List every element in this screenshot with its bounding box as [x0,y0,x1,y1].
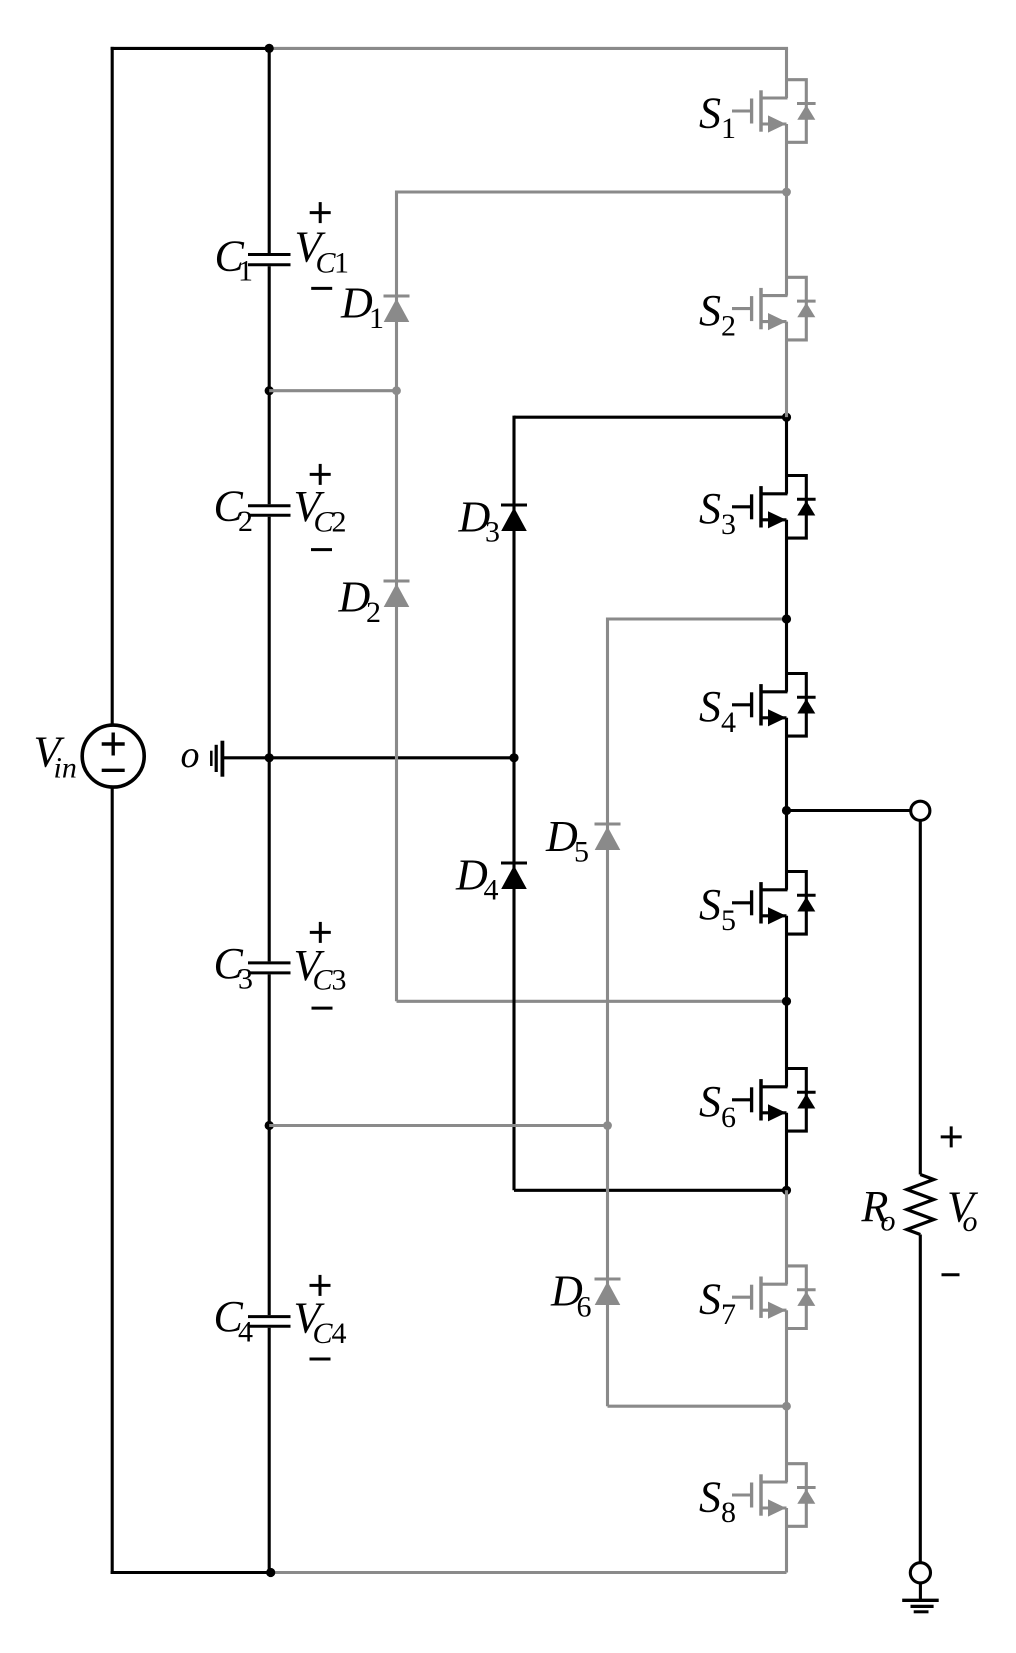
svg-text:S: S [699,1275,721,1324]
wire D1D2 branch to S5S6 node [397,1000,787,1003]
capacitor C3 [248,963,291,973]
svg-text:1: 1 [238,255,253,288]
transistor S2 [732,277,816,340]
node bus-D1D2 junction [265,386,274,395]
svg-text:2: 2 [332,506,347,539]
svg-text:S: S [699,484,721,533]
wire switch rail seg3 [785,322,788,418]
wire D3D4 branch vertical [512,416,515,1191]
wire D5D6 branch to S7S8 node [608,1405,787,1408]
label D5 [545,812,589,869]
wire switch rail seg9 [785,1190,788,1284]
svg-text:C: C [313,964,334,997]
node S1S2 junction [782,188,791,197]
svg-text:C: C [313,1317,334,1350]
wire switch rail seg5 [785,520,788,692]
wire capacitor bus seg3 [268,517,271,962]
svg-text:o: o [963,1205,978,1238]
label V_o minus [942,1273,960,1276]
wire switch rail seg11 [785,1508,788,1573]
label D4 [455,851,499,907]
capacitor C1 [248,255,291,265]
label C2 [214,482,254,539]
node o reference symbol [211,741,222,777]
label S2 [699,286,736,343]
svg-text:S: S [699,88,721,137]
label V_C2 [294,482,347,539]
label R_o [861,1182,896,1238]
diode D6 [595,1279,621,1305]
svg-text:1: 1 [334,247,349,280]
wire S2S3-node to D3D4 branch [514,416,787,419]
node o-wire D3D4 junction [509,753,518,762]
label V_C4 plus [310,1275,331,1296]
label S4 [699,682,736,739]
wire top horizontal gray segment [269,47,788,50]
wire o to D3D4 branch [224,756,514,759]
label D3 [458,492,501,548]
label V_C1 plus [310,202,331,223]
transistor S7 [732,1266,816,1329]
svg-text:7: 7 [721,1298,736,1331]
label V_o [947,1183,979,1239]
wire bottom horizontal black segment [111,1571,271,1574]
wire switch rail seg2 [785,124,788,296]
label S6 [699,1077,736,1134]
svg-text:o: o [881,1205,896,1238]
diode D5 [595,824,621,850]
node S6S7 junction [782,1186,791,1195]
svg-text:S: S [699,880,721,929]
svg-text:1: 1 [721,112,736,145]
transistor S8 [732,1464,816,1527]
svg-text:3: 3 [238,962,253,995]
wire bottom horizontal gray segment [271,1571,787,1574]
wire left rail lower [111,787,114,1574]
transistor S4 [732,674,816,737]
svg-text:8: 8 [721,1496,736,1529]
svg-text:2: 2 [238,505,253,538]
wire capacitor bus seg4 [268,974,271,1315]
transistor S3 [732,476,816,539]
svg-text:6: 6 [721,1101,736,1134]
label V_C2 plus [310,464,331,485]
wire bus to D1D2 branch [269,389,396,392]
label C3 [214,939,254,996]
label S8 [699,1472,736,1529]
svg-text:S: S [699,682,721,731]
label C4 [214,1292,254,1349]
label V_in [34,727,77,784]
svg-text:3: 3 [721,508,736,541]
node output terminal circle [911,801,930,820]
wire switch rail seg8 [785,1113,788,1191]
node S3S4 junction [782,614,791,623]
wire switch rail seg6 [785,718,788,890]
label V_C3 plus [310,922,331,943]
svg-text:2: 2 [366,596,381,629]
svg-text:4: 4 [332,1317,347,1350]
wire D5D6 branch vertical [606,617,609,1406]
label D1 [340,279,384,336]
node bus-o junction [265,753,274,762]
wire output node horizontal [787,809,911,812]
svg-text:5: 5 [574,836,589,869]
svg-text:S: S [699,286,721,335]
node bottom bus junction [266,1568,275,1577]
voltage source V_in [82,725,144,787]
wire resistor to ground [919,1235,922,1563]
svg-text:4: 4 [238,1316,253,1349]
label V_o plus [941,1126,962,1147]
label V_C1 minus [311,287,332,290]
label D6 [550,1267,592,1324]
label V_C2 minus [311,548,332,551]
svg-text:S: S [699,1077,721,1126]
label V_C4 minus [310,1358,331,1361]
wire S3S4-node to D5D6 branch [608,617,787,620]
node top bus junction [265,44,274,53]
svg-text:5: 5 [721,904,736,937]
node bus-D5D6 junction [265,1121,274,1130]
wire switch rail seg7 [785,916,788,1087]
transistor S6 [732,1069,816,1132]
diode D4 [501,863,527,889]
ground symbol [902,1600,939,1612]
wire capacitor bus seg5 [268,1328,271,1573]
label C1 [215,231,254,287]
wire capacitor bus seg1 [268,48,271,253]
label S3 [699,484,736,541]
wire bus to D5D6 branch [269,1124,607,1127]
wire switch rail seg1 [785,48,788,98]
label D2 [338,573,382,630]
label S1 [699,88,736,145]
capacitor C2 [248,506,291,516]
svg-text:4: 4 [721,706,736,739]
svg-text:6: 6 [577,1291,592,1324]
node S2S3 junction [782,413,791,422]
wire output down to resistor [919,820,922,1174]
svg-text:S: S [699,1472,721,1521]
transistor S1 [732,80,816,143]
label S7 [699,1275,736,1332]
wire D1D2 branch vertical [395,190,398,1001]
transistor S5 [732,872,816,935]
node ground terminal circle [910,1563,930,1583]
node S7S8 junction [782,1402,791,1411]
svg-text:4: 4 [484,874,499,907]
wire capacitor bus seg2 [268,266,271,504]
wire top horizontal black segment [111,47,270,50]
node S5S6 junction [782,997,791,1006]
svg-text:3: 3 [485,515,500,548]
diode D2 [384,581,410,607]
label V_C4 [294,1294,347,1351]
wire switch rail seg4 [785,417,788,494]
wire left rail upper [111,47,114,726]
wire S1S2-node to D1D2 branch [397,190,787,193]
diode D1 [384,296,410,322]
svg-text:3: 3 [332,964,347,997]
wire D3D4 branch to S6S7 node [514,1189,787,1192]
node output junction [782,806,791,815]
svg-text:in: in [54,752,77,785]
node D5D6-branch wire junction [603,1121,612,1130]
label V_C3 [294,941,347,997]
resistor R_o [907,1175,934,1235]
svg-text:o: o [181,734,200,776]
label o [181,734,200,776]
svg-text:1: 1 [369,302,384,335]
svg-text:2: 2 [721,310,736,343]
diode D3 [501,505,527,531]
wire terminal to ground symbol [919,1583,922,1600]
node D1D2-branch wire junction [392,386,401,395]
capacitor C4 [248,1317,291,1327]
label S5 [699,880,736,937]
label V_C3 minus [312,1007,333,1010]
wire switch rail seg10 [785,1310,788,1482]
label V_C1 [295,223,350,280]
